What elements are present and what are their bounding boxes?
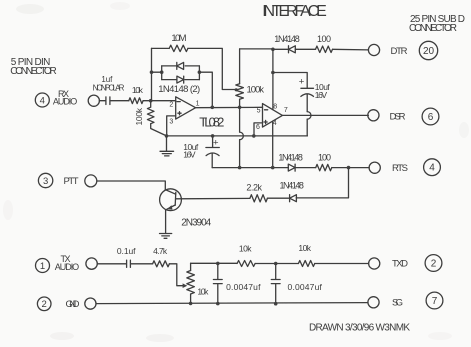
wire diode box top rail xyxy=(162,65,200,67)
label pin7 xyxy=(284,107,288,114)
wire C1 top lead xyxy=(212,136,214,147)
ground G1 xyxy=(160,136,174,156)
resistor R 100 (RTS) xyxy=(316,164,332,170)
svg-text:3: 3 xyxy=(169,119,173,126)
wire 100k bottom to ground wire xyxy=(151,124,167,136)
svg-text:TL082: TL082 xyxy=(199,115,224,130)
terminal TX AUDIO xyxy=(86,258,97,269)
wire op2 output to DSR xyxy=(282,114,368,116)
wire diode to R100 RTS xyxy=(295,167,316,169)
label 100 DTR xyxy=(317,34,331,44)
node C1 junction xyxy=(211,134,215,138)
wire op2 pin4 down xyxy=(272,121,274,167)
label 10M xyxy=(171,33,186,44)
node pot gnd junction xyxy=(189,302,193,306)
node pin7 circle (subD) xyxy=(426,292,443,309)
label GND xyxy=(66,299,80,310)
wire GND rail xyxy=(96,303,368,304)
label plus C2 xyxy=(299,77,305,88)
node junction input xyxy=(149,99,153,103)
label pin6 xyxy=(256,124,260,131)
svg-text:1: 1 xyxy=(196,101,200,108)
label 2N3904 xyxy=(181,218,211,229)
wire R100 to DTR terminal xyxy=(333,48,369,51)
label 1N4148 (base) xyxy=(279,181,304,191)
label 0.1uf xyxy=(117,246,136,256)
svg-text:NON POLAR: NON POLAR xyxy=(93,84,125,93)
label 100k rotated xyxy=(134,107,144,125)
node DTR junction xyxy=(271,48,275,52)
wire diode box left vertical xyxy=(161,66,163,80)
node RTS branch junction xyxy=(347,166,351,170)
wire pot to filter xyxy=(191,262,238,264)
potentiometer wiper arrow xyxy=(183,283,188,288)
node diode-box left junction xyxy=(150,70,154,74)
node RTS j2 xyxy=(271,166,275,170)
op-amp U1a TL082 xyxy=(176,97,196,119)
terminal TXD xyxy=(369,258,380,269)
label 4.7k xyxy=(153,246,168,256)
wire 10M top right xyxy=(188,48,238,91)
label 25 PIN SUB D xyxy=(410,14,465,25)
svg-text:4: 4 xyxy=(429,163,435,174)
capacitor C2 10uf arc xyxy=(301,94,314,97)
wire diode to 2.2k xyxy=(267,197,289,199)
label 10k filter2 xyxy=(298,243,311,253)
label title INTERFACE xyxy=(262,3,327,20)
wire diode box bottom rail xyxy=(162,79,200,81)
svg-text:10k: 10k xyxy=(298,243,311,253)
node diode-box left post xyxy=(160,70,164,74)
label CONNECTOR left xyxy=(10,66,57,77)
wire pin6 stub xyxy=(254,123,263,136)
node pin3 circle (DIN) xyxy=(38,173,52,187)
diode D1 1N4148 (points left) xyxy=(177,62,184,69)
label minus U1a xyxy=(177,101,180,103)
label RX AUDIO xyxy=(53,89,77,107)
svg-text:0.1uf: 0.1uf xyxy=(117,246,136,256)
svg-text:100k: 100k xyxy=(134,107,144,125)
svg-text:DRAWN 3/30/96 W3NMK: DRAWN 3/30/96 W3NMK xyxy=(309,323,410,334)
resistor R 2.2k xyxy=(250,195,268,202)
svg-text:3: 3 xyxy=(43,176,48,187)
label 5 PIN DIN xyxy=(11,57,51,68)
wire diode box right vertical xyxy=(198,66,200,80)
capacitor C2 10uf plate xyxy=(301,87,314,89)
svg-text:2: 2 xyxy=(431,259,437,270)
node pin6 gnd junction xyxy=(252,134,256,138)
label 1N4148 DTR xyxy=(274,34,300,44)
label pin4 xyxy=(273,120,277,127)
label 10k pot xyxy=(197,286,209,296)
wire DTR rail left xyxy=(240,48,289,50)
wire TX to C-0.1uf xyxy=(97,263,126,265)
node pin4 circle (subD) xyxy=(424,159,441,176)
wire 100k-vert top xyxy=(239,49,241,84)
node RTS j1 xyxy=(238,166,242,170)
label minus U1b xyxy=(265,109,268,111)
terminal RTS xyxy=(369,162,380,173)
label 10k filter1 xyxy=(239,244,252,254)
svg-text:10k: 10k xyxy=(132,85,144,95)
capacitor C 0.0047uf #1 xyxy=(213,263,222,303)
svg-text:7: 7 xyxy=(432,296,438,307)
label TX AUDIO xyxy=(55,254,79,272)
svg-text:1N4148: 1N4148 xyxy=(278,153,303,163)
resistor R 100k (gain) xyxy=(236,84,244,100)
diode D2 1N4148 (points right) xyxy=(177,76,184,83)
resistor R 10k (filter2) xyxy=(298,261,314,267)
label DRAWN 3/30/96 W3NMK xyxy=(309,323,410,334)
node filter j2 xyxy=(274,262,278,266)
node pin2 circle (subD) xyxy=(425,255,442,272)
svg-text:1N4148 (2): 1N4148 (2) xyxy=(158,84,200,95)
svg-text:6: 6 xyxy=(428,112,434,123)
svg-text:TXD: TXD xyxy=(392,259,408,270)
wire feedback vertical xyxy=(151,48,153,100)
node gnd junction xyxy=(165,134,169,138)
label DTR xyxy=(391,46,408,57)
terminal SG xyxy=(368,297,379,308)
label 1uf xyxy=(101,75,113,84)
svg-text:0.0047uf: 0.0047uf xyxy=(288,282,323,292)
svg-text:GND: GND xyxy=(66,299,80,310)
svg-text:CONNECTOR: CONNECTOR xyxy=(10,66,57,77)
wire 4.7k to wiper xyxy=(169,264,184,286)
wire pot top xyxy=(190,263,192,270)
capacitor C1 10uf plate xyxy=(206,147,219,149)
label 16V C2 xyxy=(315,90,328,100)
wire RTS branch down xyxy=(296,168,348,198)
node cap2 junction xyxy=(271,71,275,75)
wire R100 to RTS terminal xyxy=(332,167,369,169)
svg-text:1uf: 1uf xyxy=(101,75,113,84)
label plus C1 xyxy=(213,137,219,148)
svg-text:+: + xyxy=(299,77,305,88)
resistor R 4.7k xyxy=(153,261,170,267)
wire op1 output xyxy=(196,106,263,108)
capacitor C 0.1uf xyxy=(127,260,131,267)
wire diode to R100 xyxy=(295,48,315,50)
svg-text:6: 6 xyxy=(256,124,260,131)
label plus U1b xyxy=(264,120,267,123)
svg-text:4.7k: 4.7k xyxy=(153,246,168,256)
label pin5 xyxy=(257,108,261,115)
svg-text:5: 5 xyxy=(257,108,261,115)
capacitor C 1uf non-polar xyxy=(106,97,110,105)
label 100 RTS xyxy=(318,153,331,163)
label SG xyxy=(392,297,403,308)
wire filter mid xyxy=(255,263,298,265)
node filter j1 xyxy=(216,262,220,266)
svg-text:8: 8 xyxy=(273,103,277,110)
label TXD xyxy=(392,259,408,270)
op-amp U1b TL082 xyxy=(263,104,283,128)
wire DTR to op2 pin8 xyxy=(272,49,274,109)
label plus U1a xyxy=(178,112,181,115)
wire 10M top left xyxy=(152,47,170,49)
label pin2 xyxy=(169,102,173,109)
node pin1 circle (DIN) xyxy=(36,259,50,273)
wire pin3 stub xyxy=(167,116,176,136)
transistor Q1 emitter arrow xyxy=(167,205,173,210)
label 0.0047uf #2 xyxy=(288,282,323,292)
svg-text:10k: 10k xyxy=(239,244,252,254)
label PTT xyxy=(64,176,79,187)
svg-text:AUDIO: AUDIO xyxy=(55,262,79,272)
node diode-box right post xyxy=(198,70,202,74)
transistor Q1 collector xyxy=(165,190,175,195)
label 1N4148 RTS xyxy=(278,153,303,163)
diode D3 1N4148 DTR (points left) xyxy=(289,46,296,53)
diode D4 1N4148 RTS (points right) xyxy=(288,164,295,171)
label 100k (gain) xyxy=(247,85,265,96)
label NON POLAR xyxy=(93,84,125,93)
wire RTS rail xyxy=(212,167,288,169)
resistor R 10M xyxy=(169,45,188,51)
svg-text:RTS: RTS xyxy=(392,163,408,174)
resistor R 100k (input bias) xyxy=(147,101,154,124)
resistor R 10k (RX input) xyxy=(129,98,143,104)
node 100k output junction xyxy=(238,106,242,110)
label RTS xyxy=(392,163,408,174)
wire diode box to output xyxy=(199,72,212,107)
label 16V C1 xyxy=(183,149,196,159)
label 10k (RX input) xyxy=(132,85,144,95)
node pin4 circle (DIN) xyxy=(35,93,49,107)
label pin1 xyxy=(196,101,200,108)
svg-text:4: 4 xyxy=(40,95,45,106)
svg-text:SG: SG xyxy=(392,297,403,308)
wire C1 bottom lead xyxy=(211,154,213,168)
svg-text:10M: 10M xyxy=(171,33,186,44)
transistor Q1 2N3904 body xyxy=(160,189,182,211)
wire R-10k to op-amp pin2 xyxy=(143,100,176,102)
node cap1 gnd junction xyxy=(216,302,220,306)
wire ground rail xyxy=(167,135,308,137)
wire PTT to collector xyxy=(97,181,165,190)
terminal DSR xyxy=(368,110,379,121)
node output junction (diode box) xyxy=(211,106,215,110)
wire gnd rail corner xyxy=(306,135,308,137)
wire filter to TXD xyxy=(315,263,369,265)
wire 100k-vert to output xyxy=(239,99,241,107)
svg-text:20: 20 xyxy=(423,46,434,57)
diode D5 1N4148 (points left) xyxy=(290,195,297,202)
resistor R 10k (filter1) xyxy=(237,261,255,267)
svg-text:7: 7 xyxy=(284,107,288,114)
label CONNECTOR right xyxy=(409,23,457,34)
transistor Q1 base bar xyxy=(174,192,177,205)
label pin8 xyxy=(273,103,277,110)
wire C2 bottom with hop xyxy=(306,95,308,136)
node pin2 circle (DIN) xyxy=(37,297,51,311)
resistor R 100 (DTR) xyxy=(316,46,333,52)
ground G2 xyxy=(160,234,172,239)
wire down with hop over gnd xyxy=(239,107,241,167)
svg-text:0.0047uf: 0.0047uf xyxy=(226,282,261,292)
svg-text:16V: 16V xyxy=(315,90,328,100)
wire pot bottom xyxy=(190,294,192,303)
svg-text:2N3904: 2N3904 xyxy=(181,218,211,229)
terminal PTT xyxy=(85,175,97,187)
node pin20 circle xyxy=(419,41,437,59)
label DSR xyxy=(390,112,406,123)
svg-text:DSR: DSR xyxy=(390,112,406,123)
svg-text:100: 100 xyxy=(317,34,331,44)
label TL082 xyxy=(199,115,224,130)
svg-text:2: 2 xyxy=(42,299,47,310)
svg-text:+: + xyxy=(213,137,219,148)
label 10uf C1 xyxy=(183,142,199,152)
wire C-1uf to R-10k xyxy=(110,100,129,102)
svg-text:10k: 10k xyxy=(197,286,209,296)
wire stub to diode box xyxy=(152,71,162,73)
label 0.0047uf #1 xyxy=(226,282,261,292)
svg-text:1: 1 xyxy=(40,261,45,272)
svg-text:2.2k: 2.2k xyxy=(246,183,262,193)
capacitor C 0.0047uf #2 xyxy=(271,264,280,304)
potentiometer R 10k xyxy=(187,271,195,295)
node cap2 gnd junction xyxy=(274,302,278,306)
svg-text:2: 2 xyxy=(169,102,173,109)
capacitor C1 10uf arc xyxy=(206,153,219,156)
svg-text:16V: 16V xyxy=(183,149,196,159)
svg-text:1N4148: 1N4148 xyxy=(279,181,304,191)
label pin3 xyxy=(169,119,173,126)
svg-text:CONNECTOR: CONNECTOR xyxy=(409,23,457,34)
wire hop arc xyxy=(240,132,244,140)
terminal GND xyxy=(85,298,96,309)
svg-text:INTERFACE: INTERFACE xyxy=(262,3,327,20)
wire RX to C-1uf xyxy=(99,100,105,102)
svg-text:1N4148: 1N4148 xyxy=(274,34,300,44)
wire C-0.1uf to R-4.7k xyxy=(131,263,153,265)
terminal RX AUDIO xyxy=(88,95,99,106)
svg-text:DTR: DTR xyxy=(391,46,408,57)
node pin6 circle (subD) xyxy=(422,108,439,125)
label 2.2k xyxy=(246,183,262,193)
transistor Q1 emitter xyxy=(166,205,176,233)
wire hop arc 2 xyxy=(307,112,311,120)
wire to C2 xyxy=(273,73,307,89)
wire 2.2k to base xyxy=(176,197,250,199)
svg-text:100: 100 xyxy=(318,153,331,163)
svg-text:AUDIO: AUDIO xyxy=(53,97,77,107)
label 1N4148 (2) xyxy=(158,84,200,95)
terminal DTR xyxy=(368,44,379,55)
label 10uf C2 xyxy=(315,82,331,92)
svg-text:PTT: PTT xyxy=(64,176,79,187)
svg-text:100k: 100k xyxy=(247,85,265,96)
